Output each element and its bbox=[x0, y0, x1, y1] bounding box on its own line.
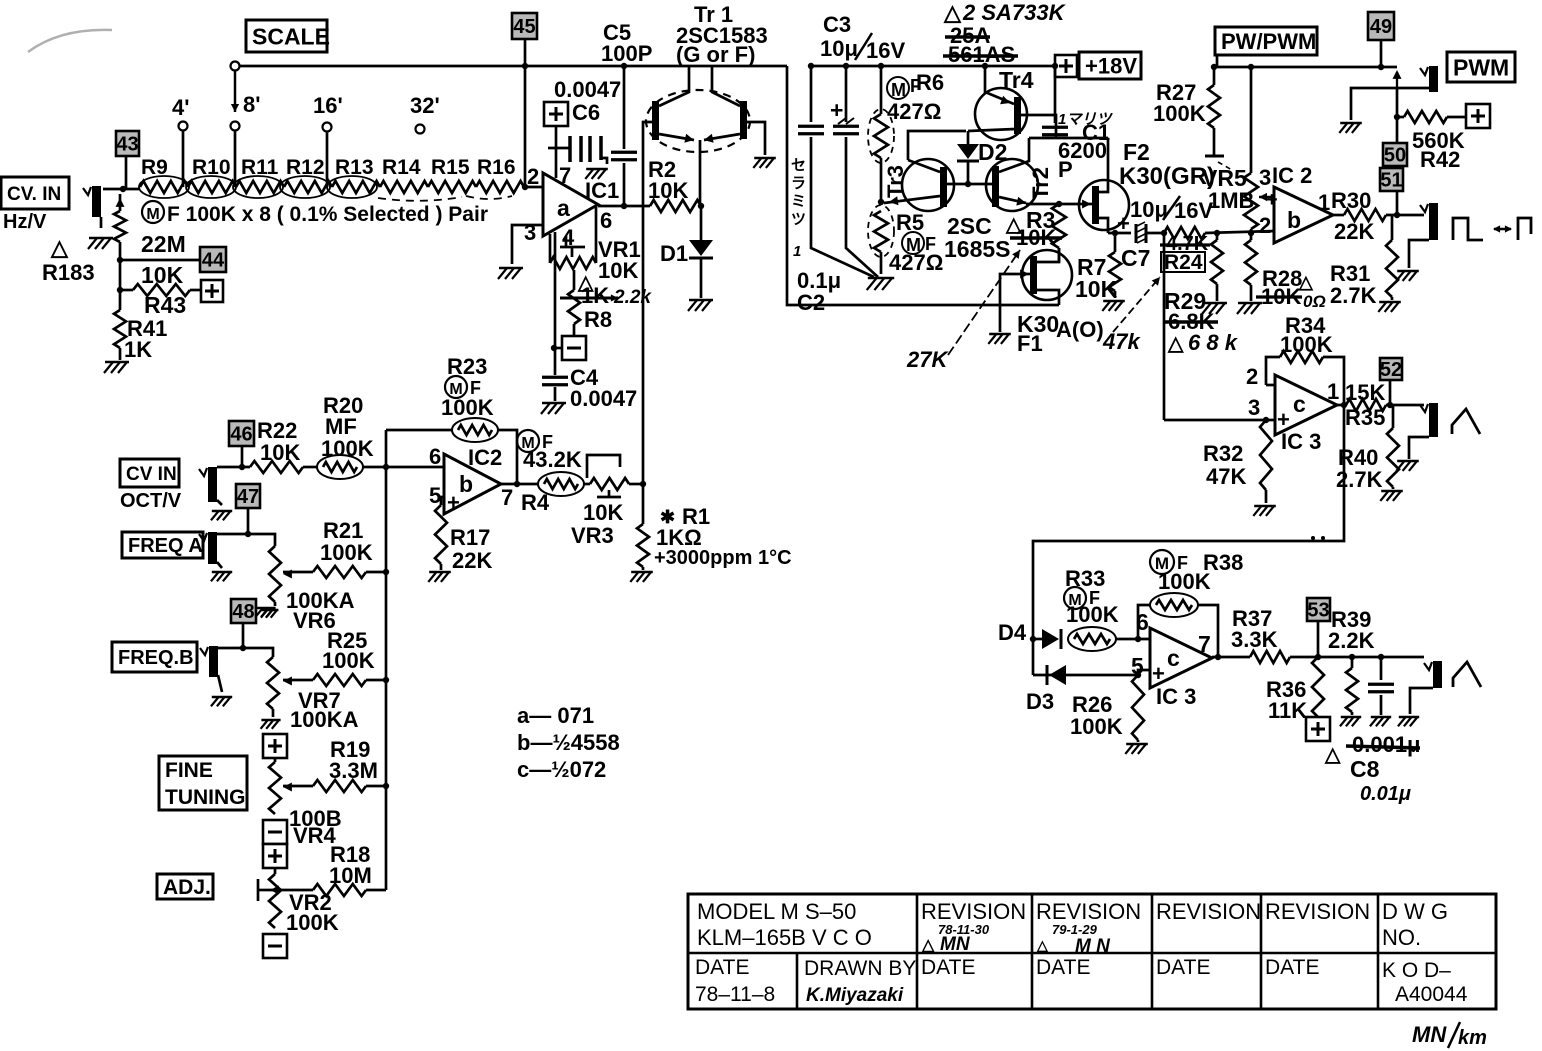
label VR7 100KA bbox=[290, 688, 359, 732]
svg-text:100K: 100K bbox=[441, 395, 494, 420]
label R25 100K bbox=[322, 628, 375, 673]
label warning R183 bbox=[42, 235, 95, 285]
svg-text:+: + bbox=[1152, 661, 1165, 686]
label R23 MF bbox=[445, 376, 481, 398]
svg-text:(G or F): (G or F) bbox=[676, 42, 755, 67]
node Tr4 rail bbox=[982, 63, 988, 69]
svg-text:52: 52 bbox=[1380, 359, 1402, 381]
svg-text:△: △ bbox=[943, 0, 962, 25]
transistor Tr3 collector bbox=[908, 131, 966, 172]
label R15 bbox=[431, 156, 470, 179]
label 100KA VR6 bbox=[286, 588, 355, 633]
pin 3 label IC2 bbox=[1259, 165, 1271, 190]
ground R31 bbox=[1378, 302, 1401, 312]
jack FREQ A bbox=[199, 532, 217, 564]
svg-text:SCALE: SCALE bbox=[252, 23, 330, 49]
resistor R15 bbox=[428, 181, 476, 193]
label MN/km bbox=[1412, 1022, 1487, 1049]
label C8 bbox=[1350, 756, 1380, 782]
svg-text:VR3: VR3 bbox=[571, 523, 614, 548]
label R24 box bbox=[1161, 251, 1205, 274]
trimmer VR2 wiper bbox=[258, 879, 268, 901]
wire minus box stub bbox=[555, 347, 562, 350]
pin 2 label bbox=[527, 164, 539, 189]
svg-text:R4: R4 bbox=[521, 490, 550, 515]
transistor Tr2 circle bbox=[986, 159, 1038, 211]
plus IC2l bbox=[447, 490, 460, 515]
wire pin4 stub bbox=[565, 236, 568, 246]
svg-text:c: c bbox=[1293, 391, 1306, 417]
label box ADJ bbox=[157, 874, 213, 899]
trimmer VR1 10K bbox=[550, 234, 596, 269]
wire 4ft tap bbox=[182, 131, 185, 187]
node D2 base bbox=[965, 181, 971, 187]
wire jack to R22 bbox=[217, 466, 250, 469]
wire R33 to pin6 bbox=[1116, 638, 1150, 641]
resistor R42 560K bbox=[1404, 111, 1466, 123]
svg-text:0.001μ: 0.001μ bbox=[1352, 732, 1421, 757]
label IC2 left bbox=[468, 445, 502, 470]
node R42 left bbox=[1394, 114, 1404, 120]
plus box VR4 bbox=[263, 734, 287, 758]
label Tr1 bbox=[676, 2, 768, 67]
ground D1 bbox=[688, 300, 713, 311]
transistor Tr1 pair ellipse bbox=[646, 90, 750, 152]
label C5 100P bbox=[601, 20, 652, 66]
resistor R12 bbox=[284, 181, 332, 193]
label VR1 10K bbox=[598, 237, 641, 283]
svg-text:15K: 15K bbox=[1345, 380, 1385, 405]
svg-text:0.01μ: 0.01μ bbox=[1360, 783, 1411, 805]
label 100B VR4 bbox=[289, 806, 342, 848]
svg-text:1: 1 bbox=[1318, 190, 1330, 215]
svg-text:3.3K: 3.3K bbox=[1231, 627, 1278, 652]
label DRAWN BY bbox=[804, 957, 916, 980]
node VR5 top bbox=[1248, 64, 1254, 70]
wire CV jack to chain bbox=[103, 188, 140, 191]
diode D1 bbox=[689, 206, 713, 298]
label struck 561AS bbox=[943, 42, 1018, 67]
transistor F2 circle bbox=[1079, 180, 1129, 230]
node R38 out bbox=[1215, 654, 1221, 660]
resistor R183 22M bbox=[114, 194, 126, 290]
svg-text:4': 4' bbox=[172, 95, 189, 120]
ground VR6 bbox=[256, 602, 276, 617]
label IC 2 bbox=[1272, 163, 1312, 188]
resistor R11 bbox=[236, 181, 284, 193]
wire summing bus bbox=[385, 467, 388, 890]
svg-text:REVISION: REVISION bbox=[1265, 899, 1370, 924]
label R37 3.3K bbox=[1231, 606, 1278, 652]
node 48 junction bbox=[240, 645, 246, 651]
label R30 22K bbox=[1331, 188, 1374, 244]
wire cv oct sleeve bbox=[217, 500, 222, 505]
svg-text:F2: F2 bbox=[1123, 139, 1150, 165]
svg-text:C7: C7 bbox=[1121, 245, 1150, 271]
svg-text:10K: 10K bbox=[1075, 276, 1118, 302]
svg-text:427Ω: 427Ω bbox=[887, 99, 941, 124]
capacitor C3 electrolytic bbox=[830, 66, 878, 277]
ground square jack bbox=[1396, 271, 1419, 281]
capacitor C7 bbox=[1136, 222, 1146, 243]
node pin5 bbox=[1135, 672, 1141, 678]
label box CV. IN bbox=[1, 177, 69, 209]
node 43 junction bbox=[120, 186, 126, 192]
label D4 bbox=[998, 620, 1027, 645]
resistor R14 bbox=[380, 181, 428, 193]
wire R24 to IC2 pin2 bbox=[1205, 231, 1274, 233]
transistor Tr1 left bar bbox=[652, 101, 659, 140]
diode D2 bbox=[957, 131, 979, 184]
svg-text:REVISION: REVISION bbox=[1156, 899, 1261, 924]
pin 6 label IC2l bbox=[429, 444, 441, 469]
label Tr4 bbox=[999, 67, 1034, 93]
ground R40 bbox=[1380, 491, 1403, 501]
svg-text:47K: 47K bbox=[1206, 464, 1246, 489]
label NO. bbox=[1382, 925, 1421, 950]
arrow PWM jack tip bbox=[1393, 70, 1402, 88]
diode D3 bbox=[1047, 665, 1066, 685]
jack triangle out bbox=[1420, 403, 1438, 437]
svg-text:11K: 11K bbox=[1268, 698, 1307, 723]
label C3 10u/16V bbox=[820, 12, 905, 63]
label R13 bbox=[335, 156, 374, 179]
svg-text:M N: M N bbox=[1075, 936, 1111, 957]
svg-text:46: 46 bbox=[230, 424, 252, 446]
label 10K VR3 bbox=[583, 500, 623, 525]
table title block bbox=[688, 894, 1496, 1009]
wire R4 to VR3 bbox=[584, 483, 590, 486]
svg-text:F1: F1 bbox=[1017, 331, 1043, 356]
ground saw jack bbox=[1398, 717, 1419, 726]
svg-text:R8: R8 bbox=[584, 307, 612, 332]
wire pin5 stub bbox=[1138, 670, 1150, 675]
svg-text:PW/PWM: PW/PWM bbox=[1221, 29, 1316, 54]
svg-text:ツ: ツ bbox=[791, 211, 806, 228]
label R16 bbox=[477, 156, 516, 179]
box 43 bbox=[116, 131, 139, 156]
label R33 MF bbox=[1064, 587, 1100, 609]
node SCALE open terminal bbox=[231, 62, 240, 71]
wire R20 to pin6 bbox=[363, 466, 444, 469]
svg-text:2: 2 bbox=[527, 164, 539, 189]
capacitor C8 bbox=[1368, 657, 1394, 715]
label ceramic vertical bbox=[791, 157, 806, 260]
svg-text:100KA: 100KA bbox=[290, 707, 359, 732]
svg-text:R6: R6 bbox=[916, 70, 944, 95]
svg-text:100K: 100K bbox=[1158, 569, 1211, 594]
ground R5 C2 C3 bbox=[867, 278, 895, 290]
label REVISION 3 bbox=[1156, 899, 1261, 924]
svg-text:0.0047: 0.0047 bbox=[570, 386, 637, 411]
resistor R5 MF bbox=[868, 205, 894, 274]
svg-text:100K: 100K bbox=[1070, 714, 1123, 739]
svg-text:IC1: IC1 bbox=[585, 178, 619, 203]
svg-text:セ: セ bbox=[791, 157, 806, 174]
node pin4 line bbox=[551, 345, 557, 351]
pot VR7 wiper arrow bbox=[283, 677, 292, 686]
svg-text:10μ: 10μ bbox=[820, 36, 858, 61]
wire pin3 stub bbox=[512, 225, 543, 264]
label MODEL MS-50 bbox=[697, 899, 856, 924]
ground R39 bbox=[1340, 717, 1361, 726]
svg-text:6: 6 bbox=[1136, 609, 1149, 635]
label MF R38 bbox=[1150, 550, 1243, 575]
resistor R39 bbox=[1346, 657, 1358, 715]
wire to box44 bbox=[120, 259, 200, 262]
svg-text:FREQ.B: FREQ.B bbox=[118, 647, 194, 669]
svg-text:R14: R14 bbox=[382, 156, 421, 179]
pot VR5 wiper bbox=[1259, 189, 1278, 211]
svg-text:49: 49 bbox=[1370, 16, 1392, 38]
wire PWM jack sleeve bbox=[1351, 88, 1429, 120]
transistor Tr1 left emitter bbox=[659, 134, 694, 143]
svg-text:+: + bbox=[447, 490, 460, 515]
label opamp note a bbox=[517, 703, 594, 728]
pot VR4 bbox=[269, 758, 281, 814]
svg-text:FREQ A: FREQ A bbox=[128, 535, 203, 557]
label R32 47K bbox=[1203, 441, 1246, 489]
svg-text:7: 7 bbox=[559, 163, 571, 188]
transistor F1 circle bbox=[1022, 250, 1072, 300]
transistor Tr4 collector bbox=[985, 66, 1014, 104]
label REVISION 1 bbox=[921, 899, 1026, 924]
label VR5 1MB bbox=[1202, 165, 1254, 213]
node R2 right bbox=[698, 203, 704, 209]
wire pin2 stub bbox=[1266, 384, 1275, 387]
pin 3 label bbox=[524, 220, 536, 245]
svg-text:+: + bbox=[1266, 189, 1278, 211]
svg-text:△: △ bbox=[1167, 333, 1184, 355]
svg-text:D W G: D W G bbox=[1382, 899, 1448, 924]
ground PWM sleeve bbox=[1339, 123, 1362, 133]
node 49 junction bbox=[1378, 64, 1384, 70]
svg-text:6: 6 bbox=[429, 444, 441, 469]
wire Tr1 left base bbox=[643, 122, 652, 484]
label struck 6.8K bbox=[1163, 309, 1218, 334]
label DATE r1 bbox=[921, 956, 975, 979]
label 2SC 1685S bbox=[944, 213, 1011, 262]
wire R38 right bbox=[1198, 605, 1218, 657]
box 53 bbox=[1307, 598, 1330, 622]
ground C4 bbox=[541, 403, 566, 414]
label struck 10K R3 bbox=[1010, 225, 1062, 250]
wire saw jack sleeve bbox=[1410, 688, 1433, 714]
resistor R26 bbox=[1132, 675, 1144, 742]
svg-text:R23: R23 bbox=[447, 354, 487, 379]
resistor R23 MF bbox=[452, 418, 498, 442]
label R28 bbox=[1262, 266, 1314, 292]
svg-text:C2: C2 bbox=[797, 290, 825, 315]
resistor R6 MF bbox=[868, 66, 894, 202]
node pin6 bbox=[1135, 636, 1141, 642]
svg-text:R183: R183 bbox=[42, 260, 95, 285]
node C2 rail bbox=[808, 63, 814, 69]
leader R27 dashes bbox=[1218, 162, 1232, 170]
wire FREQ B to VR7 bbox=[218, 648, 273, 657]
label warning R3 bbox=[1005, 214, 1022, 236]
label IC 3 lower bbox=[1156, 684, 1196, 709]
svg-text:✱: ✱ bbox=[660, 507, 675, 527]
svg-text:Tr3: Tr3 bbox=[883, 165, 908, 198]
svg-text:48: 48 bbox=[232, 601, 254, 623]
tap arrow to 8ft bbox=[231, 70, 239, 112]
svg-text:△: △ bbox=[921, 937, 935, 954]
wire C7 to R24 bbox=[1146, 232, 1164, 235]
resistor R29 shunt bbox=[1211, 230, 1223, 301]
ground R32 bbox=[1253, 506, 1276, 516]
capacitor C2 bbox=[798, 66, 874, 277]
svg-text:2: 2 bbox=[1246, 364, 1258, 389]
node R6 rail bbox=[878, 63, 884, 69]
plus box VR2 bbox=[263, 844, 287, 868]
ground FREQ B jack bbox=[211, 675, 232, 706]
wire 52 stub bbox=[1389, 380, 1392, 405]
node R20 out bbox=[383, 464, 389, 470]
node R25 junction bbox=[383, 677, 389, 683]
wire D3 row bbox=[1033, 674, 1138, 677]
transistor Tr4 bar bbox=[1014, 97, 1021, 134]
svg-text:100K: 100K bbox=[286, 910, 339, 935]
op-amp IC1 bbox=[543, 173, 598, 236]
wire feedback R23 riser bbox=[385, 430, 388, 467]
svg-text:3: 3 bbox=[1248, 395, 1260, 420]
label R6 427 bbox=[887, 70, 944, 124]
ground F1 gate bbox=[988, 334, 1011, 344]
label rev1 date bbox=[938, 922, 990, 937]
label b bbox=[1287, 207, 1301, 233]
label R23 bbox=[447, 354, 487, 379]
svg-text:D1: D1 bbox=[660, 241, 688, 266]
resistor R1 bbox=[637, 484, 649, 570]
label R7 10K bbox=[1075, 254, 1118, 302]
pin 5 label IC2l bbox=[429, 483, 441, 508]
label 1Kohm bbox=[656, 525, 702, 550]
svg-text:K.Miyazaki: K.Miyazaki bbox=[806, 985, 904, 1006]
svg-text:5: 5 bbox=[429, 483, 441, 508]
svg-text:27K: 27K bbox=[906, 347, 949, 372]
svg-text:OCT/V: OCT/V bbox=[120, 490, 182, 512]
pot VR2 bbox=[269, 868, 281, 928]
capacitor C1 bbox=[1029, 66, 1108, 138]
label saw wave bbox=[1453, 662, 1481, 687]
label R8 1K->2.2k bbox=[560, 283, 652, 332]
ground 48 bbox=[261, 610, 279, 618]
box 50 bbox=[1383, 143, 1407, 167]
svg-text:2: 2 bbox=[1259, 213, 1271, 238]
wire pin5 stub IC2l bbox=[441, 497, 444, 505]
label R31 2.7K bbox=[1330, 261, 1377, 308]
transistor Tr1 right bar bbox=[740, 101, 747, 139]
capacitor C4 bbox=[542, 377, 568, 401]
label box PW/PWM bbox=[1215, 27, 1317, 55]
transistor F1 gate bbox=[1000, 270, 1030, 333]
label R17 22K bbox=[450, 525, 492, 573]
op-amp IC2 left bbox=[444, 454, 501, 514]
wire 53 stub bbox=[1317, 621, 1320, 657]
wire 16ft tap bbox=[326, 132, 329, 187]
jack FREQ B bbox=[200, 646, 218, 677]
svg-text:7: 7 bbox=[1198, 631, 1211, 657]
pin 7 label bbox=[1198, 631, 1211, 657]
svg-text:16V: 16V bbox=[866, 38, 905, 63]
label R5 427 bbox=[889, 210, 943, 275]
svg-text:c—½072: c—½072 bbox=[517, 757, 606, 782]
resistor R18 bbox=[268, 884, 386, 896]
svg-text:REVISION: REVISION bbox=[1036, 899, 1141, 924]
svg-text:C3: C3 bbox=[823, 12, 851, 37]
svg-text:△: △ bbox=[50, 235, 69, 260]
label R14 bbox=[382, 156, 421, 179]
ground C6 bbox=[585, 169, 608, 179]
resistor R8 bbox=[568, 270, 580, 336]
label struck 25A bbox=[945, 23, 990, 48]
label 3000ppm bbox=[654, 547, 792, 569]
svg-text:R5: R5 bbox=[896, 210, 924, 235]
transistor Tr1 right collector bbox=[712, 66, 740, 106]
label R23 100K bbox=[441, 395, 494, 420]
svg-text:0.0047: 0.0047 bbox=[554, 77, 621, 102]
label A40044 bbox=[1395, 983, 1468, 1006]
pin 6 label bbox=[600, 208, 612, 233]
label square wave bbox=[1453, 218, 1531, 240]
resistor R16 bbox=[476, 181, 524, 193]
wire 8ft tap bbox=[234, 131, 237, 187]
wire R29 down bbox=[1163, 233, 1166, 420]
node 45 chain bbox=[522, 184, 528, 190]
svg-text:45: 45 bbox=[513, 16, 535, 38]
svg-text:22K: 22K bbox=[452, 548, 492, 573]
node C5 top bbox=[621, 63, 627, 69]
label OCT/V bbox=[120, 490, 182, 512]
ground R7 bbox=[1102, 301, 1125, 311]
ground tri jack bbox=[1396, 461, 1419, 471]
svg-text:79-1-29: 79-1-29 bbox=[1052, 922, 1098, 937]
transistor Tr4 emitter bbox=[968, 115, 1056, 138]
ground CV.IN jack bbox=[88, 238, 113, 249]
label D1 bbox=[660, 241, 688, 266]
svg-text:100K: 100K bbox=[320, 540, 373, 565]
transistor F1 bar bbox=[1030, 256, 1037, 294]
resistor R17 bbox=[435, 505, 447, 570]
svg-text:50: 50 bbox=[1384, 145, 1406, 167]
label R22 10K bbox=[257, 418, 300, 465]
wire 49 stub bbox=[1380, 40, 1383, 67]
ground R28 bbox=[1237, 303, 1262, 314]
svg-text:DATE: DATE bbox=[1036, 956, 1090, 979]
jack saw out bbox=[1424, 661, 1442, 688]
svg-text:+: + bbox=[830, 97, 843, 123]
label 0.01u bbox=[1360, 783, 1411, 805]
label DATE 3 bbox=[1156, 956, 1210, 979]
svg-text:78–11–8: 78–11–8 bbox=[695, 983, 775, 1006]
label signature bbox=[806, 985, 904, 1006]
svg-text:DATE: DATE bbox=[695, 956, 749, 979]
svg-text:TUNING: TUNING bbox=[165, 786, 246, 809]
label 22M bbox=[141, 231, 186, 257]
wire jack sleeve bbox=[100, 217, 103, 228]
svg-text:32': 32' bbox=[410, 93, 440, 118]
resistor R20 MF bbox=[317, 455, 363, 479]
transistor Tr3 bar bbox=[940, 167, 947, 207]
op-amp IC3 lower bbox=[1150, 628, 1212, 688]
pin 4 label bbox=[562, 225, 575, 250]
label DATE 4 bbox=[1265, 956, 1319, 979]
resistor R36 bbox=[1312, 657, 1324, 717]
resistor R22 bbox=[250, 461, 303, 473]
label 78-11-8 bbox=[695, 983, 775, 1006]
svg-text:DRAWN BY: DRAWN BY bbox=[804, 957, 916, 980]
